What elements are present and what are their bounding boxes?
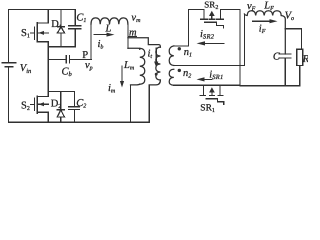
svg-text:R: R [302,54,308,65]
svg-text:SR2: SR2 [204,0,218,11]
svg-text:S1: S1 [21,28,30,40]
svg-text:iSR1: iSR1 [209,69,223,81]
svg-text:n2: n2 [183,68,191,80]
svg-text:vp: vp [85,60,93,72]
svg-text:C1: C1 [76,12,86,24]
svg-text:Cb: Cb [62,66,73,78]
svg-text:im: im [108,83,116,95]
svg-text:LF: LF [263,0,274,12]
svg-text:n1: n1 [184,47,192,59]
svg-text:S2: S2 [21,100,30,112]
svg-text:L: L [105,23,112,34]
svg-text:Vin: Vin [20,63,31,75]
svg-text:D2: D2 [51,99,62,111]
svg-text:C: C [273,51,281,62]
svg-text:Vo: Vo [285,11,294,23]
svg-text:vF: vF [247,1,256,13]
svg-text:iF: iF [259,23,266,35]
svg-text:Lm: Lm [123,60,135,72]
svg-text:it: it [148,49,153,61]
svg-text:ib: ib [98,39,104,51]
svg-text:C2: C2 [76,98,86,110]
svg-text:vm: vm [131,12,141,24]
svg-text:D1: D1 [51,19,62,31]
svg-text:iSR2: iSR2 [200,29,215,41]
svg-text:SR1: SR1 [200,104,215,115]
